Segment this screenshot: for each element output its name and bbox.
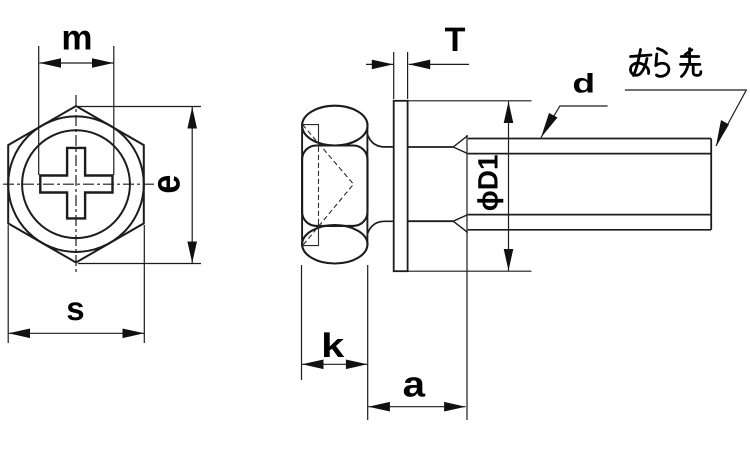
svg-text:s: s (66, 290, 84, 327)
svg-text:T: T (445, 21, 466, 59)
svg-text:k: k (321, 327, 344, 365)
svg-text:m: m (61, 19, 92, 58)
svg-text:d: d (572, 69, 595, 99)
svg-text:a: a (403, 364, 427, 405)
svg-text:ϕD1: ϕD1 (472, 154, 503, 211)
svg-text:e: e (144, 175, 189, 194)
